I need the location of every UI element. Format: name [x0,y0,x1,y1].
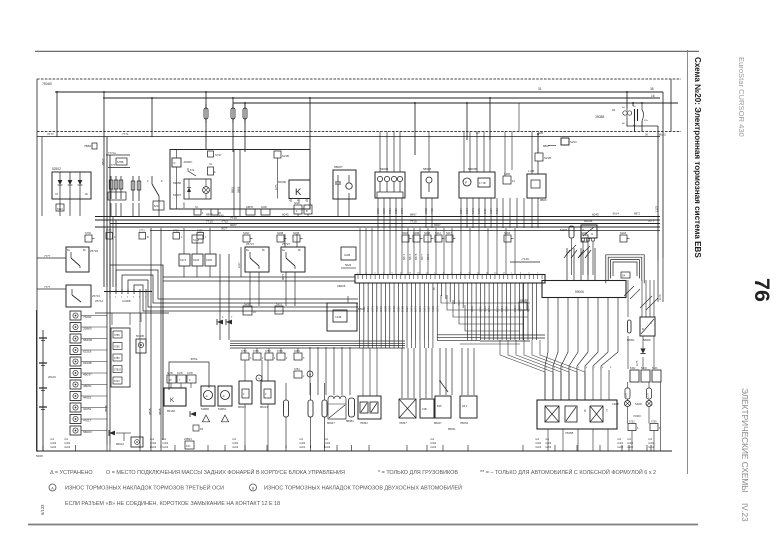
bus 8867 horizontal [95,216,660,218]
right nested loops [613,262,637,276]
mid horizontals to connector row [163,276,355,278]
CAB box [341,247,356,260]
svg-text:-B?63-: -B?63- [190,357,198,361]
59006 wires down [545,298,548,371]
left vertical 7777 [41,137,43,217]
svg-text:6/133: 6/133 [40,504,45,515]
svg-text:0B06: 0B06 [470,305,474,312]
diode near relay [190,412,196,417]
ground bus [37,450,672,452]
svg-text:84008: 84008 [584,219,593,223]
svg-text:25727: 25727 [282,242,290,246]
svg-text:0046: 0046 [183,202,186,208]
connector S286 [503,176,511,184]
connector S210 top [274,151,281,158]
lamp in 53056 [203,187,210,194]
ground stubs [42,445,44,451]
svg-text:K: K [170,398,174,404]
svg-text:66B: 66B [538,131,543,135]
svg-text:25714: 25714 [95,299,103,303]
S-connector row mid-left [106,233,113,240]
top-band vertical wires into components [379,132,381,173]
module bottom connectors [194,209,201,215]
svg-text:5B05B: 5B05B [468,167,477,171]
svg-text:A8005: A8005 [337,284,346,288]
circled A note [256,375,262,381]
svg-text:S21?: S21? [446,232,452,235]
svg-text:1175: 1175 [658,294,662,300]
diode right [640,348,645,353]
svg-text:1B 2: 1B 2 [462,404,468,408]
svg-text:7710: 7710 [410,220,417,224]
svg-text:0007: 0007 [434,223,441,227]
svg-text:8867: 8867 [101,158,105,165]
S234 connector right [561,138,569,145]
svg-text:1175: 1175 [275,184,278,190]
svg-text:S752: S752 [629,421,635,424]
svg-text:S754: S754 [265,350,271,353]
S7B5 column outline [111,328,130,387]
crossover horizontals y335 [480,334,545,336]
module box 46005 group [170,150,310,210]
svg-text:6B7?: 6B7? [420,253,424,260]
svg-text:7710: 7710 [230,216,237,220]
right lamp wires [627,382,629,388]
svg-text:S254: S254 [294,350,300,353]
svg-text:51N0: 51N0 [641,367,647,370]
svg-text:P: P [465,181,467,185]
svg-text:S17B: S17B [187,373,193,375]
svg-text:1117: 1117 [237,262,241,268]
svg-text:5171: 5171 [422,306,426,312]
diode pair mid-left [219,254,221,340]
svg-text:88047: 88047 [434,421,442,425]
svg-text:G: G [591,232,593,236]
wire 8807 label [537,134,539,153]
frame right edge outer [670,79,672,132]
svg-text:7777: 7777 [44,254,51,258]
svg-text:S238: S238 [243,232,249,235]
svg-text:85162: 85162 [167,409,175,413]
svg-text:0B0B: 0B0B [158,408,162,415]
svg-text:S754: S754 [277,350,283,353]
svg-text:7B052: 7B052 [460,421,469,425]
svg-text:5664: 5664 [500,306,504,312]
svg-text:5B6B: 5B6B [237,186,241,193]
svg-text:86013: 86013 [260,405,268,409]
svg-text:52502: 52502 [52,167,61,171]
svg-text:ИЗНОС ТОРМОЗНЫХ НАКЛАДОК ТОРМО: ИЗНОС ТОРМОЗНЫХ НАКЛАДОК ТОРМОЗОВ ДВУХОС… [264,484,462,492]
trailer lamps 72000 [625,401,631,407]
right border wire 1176 [662,92,664,258]
svg-text:78052: 78052 [360,421,368,425]
fan continuations into band [359,340,361,348]
svg-text:m2/2: m2/2 [299,445,306,449]
cab frame 7504B bottom (dashed) [37,131,681,133]
svg-text:S133: S133 [193,239,199,242]
svg-text:m2/2: m2/2 [50,445,57,449]
svg-text:7771: 7771 [122,132,129,136]
feed wires to S174 boxes [183,228,185,254]
bundle horizontals y342 [230,340,405,342]
modulator 8606x [328,396,346,419]
connector S21B mid [535,153,543,161]
staircase jogs right of fan [441,295,530,303]
S754 feed stubs [244,348,246,353]
svg-text:J5088: J5088 [595,115,604,119]
wires C2008 pins down [139,294,141,440]
svg-text:-46005-: -46005- [183,160,193,164]
svg-text:S234: S234 [570,140,577,144]
svg-text:26L00: 26L00 [48,375,56,379]
svg-text:S133: S133 [193,258,200,262]
triangles removed [202,415,209,422]
connector S172 [275,306,283,314]
svg-text:5171: 5171 [409,306,413,312]
svg-text:0122: 0122 [427,306,431,312]
svg-text:8400?: 8400? [560,228,568,232]
top band drop x104 [103,92,105,137]
right columns from loops [627,280,629,317]
svg-text:S754: S754 [294,368,300,371]
wear sensor 86013 [261,381,275,404]
svg-text:5171: 5171 [496,306,500,312]
module 59006 [542,281,626,298]
svg-text:58605: 58605 [423,167,432,171]
svg-text:S51B: S51B [402,232,408,235]
svg-text:S105: S105 [206,258,213,262]
stack bus verticals [106,228,108,445]
svg-text:A2113: A2113 [520,298,528,302]
svg-text:806B: 806B [392,306,396,312]
svg-text:0007: 0007 [230,223,237,227]
ECU wire fan down [359,283,361,340]
52502 wires down [59,199,61,216]
bus 31 top [55,91,663,93]
wires down from left cluster [110,203,112,217]
svg-text:5521: 5521 [418,306,422,312]
svg-text:C2008: C2008 [122,299,131,303]
svg-text:S754: S754 [241,350,247,353]
svg-text:S21B: S21B [544,156,551,160]
slash marks 84008 wires [566,245,576,255]
svg-text:** = – ТОЛЬКО ДЛЯ АВТОМОБИЛЕЙ: ** = – ТОЛЬКО ДЛЯ АВТОМОБИЛЕЙ С КОЛЕСНОЙ… [480,468,656,476]
svg-text:CAB: CAB [344,253,350,257]
svg-text:-6014-: -6014- [612,212,620,216]
svg-text:6045: 6045 [592,213,599,217]
relay 25727 A [245,247,269,272]
slash marks on 59006 wires [564,250,570,258]
78052 feed wires [362,348,364,396]
svg-text:7771a: 7771a [108,151,116,155]
svg-text:0027: 0027 [221,227,227,231]
relay 25718 [66,247,89,272]
svg-text:1175: 1175 [655,205,659,212]
svg-text:S17B: S17B [177,373,183,375]
wire 1175 to relay [277,158,279,199]
svg-text:5571: 5571 [414,306,418,312]
svg-text:5008: 5008 [36,454,43,458]
svg-text:5506: 5506 [504,306,508,312]
wire 7140 label [510,261,540,263]
svg-text:S174: S174 [180,258,187,262]
svg-text:51B60: 51B60 [201,407,210,411]
battery cells [39,337,47,339]
svg-text:5022: 5022 [345,263,352,267]
svg-text:5541: 5541 [487,306,491,312]
pump 51860 [201,386,215,406]
svg-text:5171: 5171 [435,306,439,312]
svg-text:ИЗНОС ТОРМОЗНЫХ НАКЛАДОК ТОРМО: ИЗНОС ТОРМОЗНЫХ НАКЛАДОК ТОРМОЗОВ ТРЕТЬЕ… [65,484,224,492]
axle module 76058 [537,400,617,429]
svg-text:5152: 5152 [630,367,636,370]
svg-text:m2/2: m2/2 [535,445,542,449]
wires into 59006 top [566,248,568,281]
drop x415 [414,103,416,155]
svg-text:6B88: 6B88 [383,305,387,312]
svg-text:54008: 54008 [635,403,642,406]
svg-text:0026: 0026 [388,306,392,312]
svg-text:S735: S735 [85,232,91,235]
capacitor box 5B007 [333,170,356,199]
svg-text:52307: 52307 [173,193,181,197]
svg-text:5046B: 5046B [136,334,144,338]
svg-text:5171: 5171 [370,306,374,312]
svg-text:25727: 25727 [246,242,254,246]
svg-text:7777: 7777 [109,188,115,192]
svg-text:S?63: S?63 [173,230,179,233]
svg-text:m2/2: m2/2 [324,445,331,449]
85162 pin connectors [167,375,176,383]
svg-text:10C: 10C [186,445,191,448]
svg-text:5516: 5516 [379,306,383,312]
svg-text:5664: 5664 [483,306,487,312]
svg-text:58008: 58008 [643,338,651,342]
pill 88083 [349,398,355,417]
wires bus band to ECU row [359,228,361,275]
svg-text:50600: 50600 [278,180,286,184]
connector S238 mid [243,306,252,315]
box 58008 [640,317,655,336]
resistor pair 131-143 [132,176,134,201]
svg-text:S21B: S21B [620,232,626,235]
cab frame left edge [36,79,38,452]
svg-text:S7B5: S7B5 [114,347,120,349]
svg-text:5176: 5176 [478,306,482,312]
wire 5B6B vertical [239,150,241,217]
svg-text:14008: 14008 [612,403,619,406]
svg-text:551B: 551B [375,306,379,312]
svg-text:-9045: -9045 [217,214,224,218]
relay 50600 pins [290,199,292,203]
svg-text:m2/2: m2/2 [430,445,437,449]
svg-text:m2/2: m2/2 [545,445,552,449]
svg-text:K: K [295,187,302,198]
svg-text:6B72: 6B72 [408,253,412,260]
svg-text:1175: 1175 [626,392,628,398]
wire 7727 horizontal [95,312,169,314]
svg-text:S21B: S21B [282,154,289,158]
loop routing near relay [169,362,209,390]
resistor pill right [628,320,632,333]
svg-text:51B61: 51B61 [218,407,227,411]
svg-text:6B7B: 6B7B [414,253,418,260]
svg-text:* = ТОЛЬКО ДЛЯ ГРУЗОВИКОВ: * = ТОЛЬКО ДЛЯ ГРУЗОВИКОВ [378,470,458,476]
svg-text:T: T [606,409,608,413]
bus 15 top [103,97,660,99]
switch 57a [187,168,189,171]
svg-text:C: C [650,321,652,325]
svg-text:-0-: -0- [205,394,208,398]
switch 147-164 [151,176,153,184]
svg-text:m2/2: m2/2 [617,445,624,449]
bundle verticals down from y347 [309,347,311,395]
diode in 53056 [187,188,191,193]
svg-text:38: 38 [650,87,654,91]
top band drop x152 [151,98,153,137]
icon box stack [70,311,81,320]
svg-text:72000: 72000 [633,414,641,418]
svg-text:59605: 59605 [380,167,389,171]
svg-text:25713: 25713 [92,294,100,298]
svg-text:8606?: 8606? [327,421,335,425]
svg-text:EuroStar CURSOR 430: EuroStar CURSOR 430 [737,57,746,137]
wire C7 bus [37,136,660,138]
svg-text:-7140-: -7140- [521,257,530,261]
wires components down to bus band [377,198,379,228]
svg-text:S21B: S21B [261,207,267,209]
svg-text:612B: 612B [431,306,435,312]
svg-text:5527: 5527 [405,306,409,312]
fuse 70555 [244,103,246,152]
svg-text:88031: 88031 [448,427,456,431]
right border wire 1175 [657,126,659,260]
svg-text:-0-: -0- [222,394,225,398]
svg-text:S: S [583,228,585,232]
svg-text:23B2V: 23B2V [184,437,192,441]
svg-text:5B007: 5B007 [334,165,343,169]
connector S1 9 [208,167,214,175]
bus 0007 horizontal [110,223,660,225]
svg-text:16: 16 [651,94,655,98]
svg-text:8B62: 8B62 [231,186,235,193]
svg-text:S755: S755 [651,421,657,424]
svg-text:8807: 8807 [543,144,550,148]
svg-text:0B1N1: 0B1N1 [658,133,666,137]
bus 30 top [233,102,678,104]
svg-text:3777: 3777 [47,132,54,136]
svg-text:7777: 7777 [44,285,51,289]
pump 51861 [218,386,232,406]
svg-text:S23B: S23B [277,232,283,235]
svg-text:0960: 0960 [396,306,400,312]
76058 ground stubs [547,429,549,451]
fuse 70554 [232,98,234,152]
svg-text:21B: 21B [422,407,427,411]
S754-2 circled B [294,371,302,378]
svg-text:S747: S747 [215,153,222,157]
pill A410B [569,226,574,238]
sensor 78057 [399,399,416,418]
battery feed wires [42,330,44,451]
svg-text:C7: C7 [476,131,480,135]
wire 8867 bundle down left [103,137,105,288]
svg-text:ЭЛЕКТРИЧЕСКИЕ СХЕМЫ: ЭЛЕКТРИЧЕСКИЕ СХЕМЫ [740,388,750,493]
svg-text:Схема №20: Электронная тормозн: Схема №20: Электронная тормозная система… [693,57,702,258]
svg-text:S133: S133 [197,230,203,233]
module feed wires left [401,348,403,398]
svg-text:6B71: 6B71 [634,212,641,216]
svg-text:6045: 6045 [282,213,289,217]
svg-text:S17B: S17B [167,373,173,375]
svg-text:8867: 8867 [410,213,417,217]
svg-text:О = МЕСТО ПОДКЛЮЧЕНИЯ МАССЫ ЗА: О = МЕСТО ПОДКЛЮЧЕНИЯ МАССЫ ЗАДНИХ ФОНАР… [106,468,345,476]
svg-text:0B06: 0B06 [540,198,547,202]
resistor trio 109-125 [110,176,112,199]
svg-text:78057: 78057 [399,421,407,425]
svg-text:1 2 B: 1 2 B [528,169,534,173]
lamp 58605 [421,172,438,198]
svg-text:31: 31 [538,87,542,91]
box 5046B [136,339,146,353]
connectors S752 S755 [628,424,636,431]
svg-text:C14B: C14B [335,316,342,319]
svg-text:25718: 25718 [90,249,98,253]
connector box 530 [527,174,546,198]
svg-text:5561: 5561 [513,306,517,312]
svg-text:5524: 5524 [358,306,362,312]
wire 8B62 vertical [233,150,235,217]
svg-text:A: A [258,377,260,381]
sidebar separator rule [687,50,689,474]
wire 7771a and S78B [106,154,130,156]
fuse 70553 [205,92,207,149]
ECU connector row [355,275,545,284]
svg-text:7504B: 7504B [42,82,53,86]
wires relays down [249,272,251,306]
bus extra line [150,230,660,232]
svg-text:IV.23: IV.23 [740,503,750,522]
drop x310 to module box [309,98,311,149]
svg-text:D1: D1 [612,108,616,112]
boxes S174 S133 S105 [179,254,190,266]
diode 86012 and box [109,431,115,436]
page bottom rule [28,524,698,526]
svg-text:m2/2: m2/2 [627,445,634,449]
svg-text:10B7B: 10B7B [246,207,253,209]
connector S234 [561,138,569,145]
svg-text:1175: 1175 [648,392,650,398]
svg-text:17 1B: 17 1B [479,182,486,185]
relay 25727 B [281,247,305,272]
wires from S-boxes down [183,266,185,277]
sensor box 5B05B [459,172,495,198]
S754 connector row [241,353,249,360]
bus 7710 horizontal [95,219,660,221]
svg-text:76: 76 [750,278,774,302]
svg-text:59006: 59006 [575,290,584,294]
extra drops x505-525 [504,132,506,177]
wire 1175 right drop [657,260,659,302]
svg-text:88083: 88083 [346,419,354,423]
boxes 5152 51N0 5143 [630,370,639,382]
svg-text:6B71: 6B71 [402,253,406,260]
svg-text:-7710: -7710 [221,220,228,224]
lamp cluster 59605 [375,172,405,198]
component 46005 [172,158,181,167]
svg-text:5511: 5511 [362,306,366,312]
connector S747 [208,151,214,157]
